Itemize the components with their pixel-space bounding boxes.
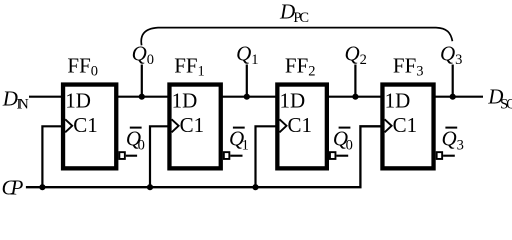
- flip-flop FF1 box: [169, 85, 220, 169]
- wire FF2.Q to FF3.1D: [327, 96, 383, 98]
- stub wire Q-bar output (FF1): [230, 155, 242, 157]
- wire clock feed FF0: [42, 126, 63, 187]
- svg-text:1D: 1D: [65, 89, 91, 113]
- svg-text:1D: 1D: [172, 89, 198, 113]
- wire Q0 stub up: [141, 65, 143, 97]
- svg-text:C1: C1: [288, 113, 313, 137]
- node Q1 junction dot: [244, 94, 250, 100]
- svg-text:C1: C1: [393, 113, 418, 137]
- stub wire Q-bar output (FF2): [336, 155, 348, 157]
- wire D_IN input: [29, 96, 63, 98]
- node Q0 junction dot: [139, 94, 145, 100]
- svg-text:1D: 1D: [280, 89, 306, 113]
- wire Q3 stub up: [452, 65, 454, 97]
- svg-text:1D: 1D: [385, 89, 411, 113]
- node CP junction at FF1 feed: [147, 184, 153, 190]
- clock chevron (FF2): [280, 119, 287, 132]
- node Q3 junction dot: [450, 94, 456, 100]
- wire CP line: [26, 126, 383, 187]
- flip-flop FF0 box: [63, 85, 116, 169]
- wire FF3.Q to D_SO: [434, 96, 484, 98]
- node CP junction at FF0 feed: [39, 184, 45, 190]
- flip-flop FF2 box: [277, 85, 327, 169]
- stub wire Q-bar output (FF0): [126, 155, 137, 157]
- overbar of Q-bar-3 (FF3): [445, 127, 457, 129]
- clock chevron (FF1): [172, 119, 179, 132]
- svg-text:C1: C1: [180, 113, 205, 137]
- stub wire Q-bar output (FF3): [443, 155, 455, 157]
- inverted output bubble (FF1): [224, 152, 230, 159]
- wire Q1 stub up: [246, 65, 248, 97]
- overbar of Q-bar-0 (FF2): [339, 127, 351, 129]
- clock chevron (FF3): [385, 119, 392, 132]
- wire FF0.Q to FF1.1D: [116, 96, 170, 98]
- clock chevron (FF0): [65, 119, 72, 132]
- inverted output bubble (FF0): [119, 152, 125, 159]
- svg-text:C1: C1: [73, 113, 98, 137]
- node Q2 junction dot: [352, 94, 358, 100]
- flip-flop FF3 box: [382, 85, 433, 169]
- wire clock feed FF2: [256, 126, 278, 187]
- overbar of Q-bar-1 (FF1): [233, 127, 245, 129]
- node CP junction at FF2 feed: [252, 184, 258, 190]
- inverted output bubble (FF3): [437, 152, 443, 159]
- inverted output bubble (FF2): [330, 152, 336, 159]
- wire clock feed FF1: [150, 126, 170, 187]
- wire FF1.Q to FF2.1D: [221, 96, 278, 98]
- overbar of Q-bar-0 (FF0): [130, 127, 142, 129]
- wire Q2 stub up: [354, 65, 356, 97]
- bracket for parallel output D_PC: [141, 28, 452, 46]
